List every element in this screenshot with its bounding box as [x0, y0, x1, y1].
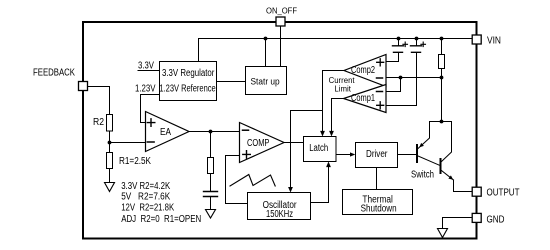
svg-text:5V R2=7.6K: 5V R2=7.6K — [121, 192, 170, 203]
svg-text:ADJ R2=0 R1=OPEN: ADJ R2=0 R1=OPEN — [121, 214, 201, 225]
wire: Latch to Driver (arrow) — [336, 154, 350, 156]
pad: ON_OFF — [276, 17, 285, 26]
pad: OUTPUT — [472, 187, 481, 196]
node: EA output junction — [209, 130, 213, 134]
wire: collector bus — [430, 121, 452, 123]
svg-text:R2: R2 — [93, 117, 104, 128]
driver block — [356, 143, 398, 168]
latch block — [304, 137, 337, 162]
node: rail / start-up junction — [264, 37, 268, 41]
IC outer boundary box — [83, 22, 477, 239]
pad: VIN — [472, 35, 481, 44]
wire: GND pad to ground — [443, 218, 473, 229]
sawtooth waveform symbol — [230, 175, 275, 187]
capacitor C1 (bootstrap, polarized) — [398, 39, 400, 46]
wire: comp2 net branch down to oscillator (sync) — [291, 111, 323, 189]
op-amp COMP (PWM comparator) — [240, 123, 285, 163]
svg-text:1.23V: 1.23V — [135, 84, 156, 95]
wire: EA output to COMP - input — [189, 131, 240, 133]
wire: to Comp1 - input — [387, 78, 401, 92]
wire: driver to switch base — [398, 154, 416, 156]
svg-text:GND: GND — [487, 215, 505, 226]
node: collector — [440, 120, 444, 124]
wire: junction down to compensation resistor — [210, 132, 212, 158]
comparator Comp1 (current limit) — [344, 85, 387, 113]
svg-text:R1=2.5K: R1=2.5K — [119, 156, 151, 167]
svg-text:Statr up: Statr up — [251, 76, 280, 86]
wire: COMP output to Latch — [284, 142, 304, 144]
transistor Q1 (PNP driver of sziklai switch) — [416, 145, 418, 162]
node: feedback divider junction — [108, 141, 112, 145]
wire: rail drop to Start-up block — [265, 39, 267, 67]
pad: FEEDBACK — [79, 82, 88, 91]
wire: comparator minus rail to switch collector — [387, 77, 442, 79]
wire: ON_OFF pad drop to Start-up block — [280, 26, 282, 66]
3.3V regulator / 1.23V reference block — [160, 62, 217, 101]
node: rail / sense resistor — [440, 37, 444, 41]
wire: Driver to Thermal Shutdown — [376, 168, 378, 190]
svg-text:EA: EA — [160, 127, 171, 138]
svg-text:Driver: Driver — [366, 149, 388, 160]
resistor (current sense) — [441, 39, 443, 55]
node under sense resistor — [440, 76, 444, 80]
wire: emitter to OUTPUT pad — [454, 180, 473, 192]
resistor (compensation) — [208, 158, 214, 174]
start-up block — [246, 67, 287, 95]
ground (GND pin) — [438, 229, 448, 238]
svg-text:12V R2=21.8K: 12V R2=21.8K — [121, 203, 174, 214]
svg-text:OUTPUT: OUTPUT — [487, 188, 520, 199]
wire: 3.3V stub — [138, 70, 160, 72]
svg-text:Comp2: Comp2 — [351, 65, 375, 76]
resistor R2 — [107, 115, 113, 132]
capacitor (compensation) — [204, 192, 218, 197]
svg-text:Current: Current — [329, 76, 356, 85]
wire: R2 to R1 — [109, 131, 111, 153]
wire: oscillator output to Latch bottom — [311, 166, 329, 202]
resistor R1 — [107, 153, 113, 169]
ground (below compensation cap) — [206, 210, 216, 219]
wire: divider junction to EA - input — [110, 142, 146, 144]
wire: oscillator to COMP + input — [226, 156, 248, 204]
thermal shutdown block — [343, 190, 413, 215]
node on minus rail — [399, 76, 403, 80]
ground (below R1) — [105, 183, 115, 192]
svg-text:3.3V R2=4.2K: 3.3V R2=4.2K — [121, 181, 170, 192]
wire: resistor to capacitor — [210, 174, 212, 192]
svg-text:ON_OFF: ON_OFF — [266, 6, 297, 15]
svg-text:Shutdown: Shutdown — [361, 204, 397, 215]
svg-text:3.3V: 3.3V — [138, 61, 154, 72]
op-amp EA (error amplifier) — [146, 112, 190, 152]
pad: GND — [472, 213, 481, 222]
svg-text:Limit: Limit — [334, 85, 351, 94]
svg-text:FEEDBACK: FEEDBACK — [33, 68, 75, 79]
svg-text:Comp1: Comp1 — [351, 93, 375, 104]
svg-text:150KHz: 150KHz — [266, 209, 293, 220]
svg-text:VIN: VIN — [487, 36, 501, 47]
wire: regulator to start-up — [217, 81, 246, 83]
svg-text:COMP: COMP — [247, 138, 270, 149]
wire: Comp1 output to Latch top — [332, 99, 344, 132]
svg-text:1.23V Reference: 1.23V Reference — [159, 84, 216, 95]
wire: 1.23V reference to EA + input — [141, 95, 160, 123]
svg-text:3.3V Regulator: 3.3V Regulator — [162, 68, 215, 79]
wire: node down to collector node — [441, 78, 443, 122]
wire: Comp2 output to Latch top — [323, 71, 345, 132]
wire: FEEDBACK pad to R2 — [88, 87, 110, 115]
transistor Q2 (NPN output switch) — [440, 159, 442, 173]
capacitor C2 (bootstrap, polarized) — [416, 39, 418, 46]
svg-text:Latch: Latch — [309, 143, 328, 154]
svg-text:Switch: Switch — [411, 170, 434, 181]
oscillator block — [248, 193, 311, 220]
wire: top rail from regulator to VIN — [199, 39, 473, 62]
wire: R1 to ground — [109, 169, 111, 183]
comparator Comp2 (current limit) — [344, 55, 386, 87]
